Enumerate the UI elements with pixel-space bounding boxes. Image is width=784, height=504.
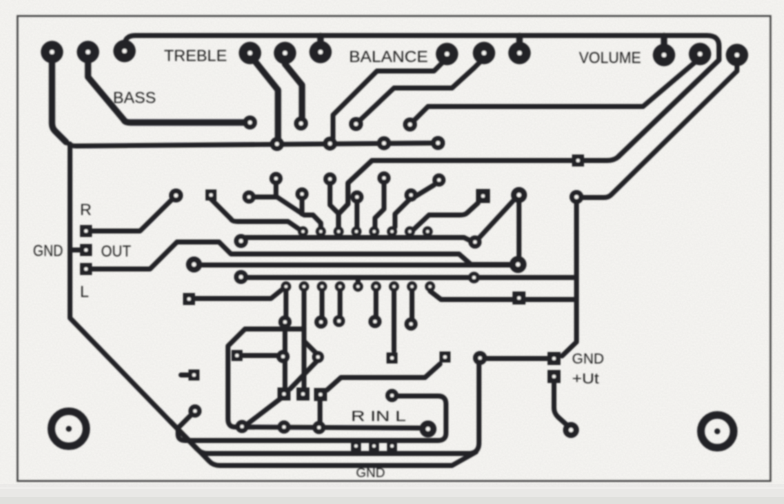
wire: pad 330 to IC row pad 3 [330, 185, 339, 227]
wire: L square jog to long analog bus H1 [92, 242, 509, 269]
junction pad bus 330 [323, 137, 337, 151]
svg-text:TREBLE: TREBLE [164, 48, 227, 65]
wire: pad 285 stem down to square 284 [283, 328, 288, 388]
pad IC row2 pin9 [425, 281, 435, 291]
pad component lower 411 [404, 188, 417, 201]
pad bottom line 319 [312, 421, 325, 434]
pad 241 H3 start [234, 270, 248, 284]
junction pad bus 438 [431, 136, 445, 150]
wire: pad 384 to IC row pad 5 [375, 184, 384, 227]
wire: long bus H2 from pad 194 to right vertical [202, 263, 510, 268]
svg-text:VOLUME: VOLUME [579, 50, 641, 67]
svg-text:GND: GND [33, 243, 63, 260]
square pad GND out [80, 244, 92, 256]
pad TREBLE pot pin3 [309, 41, 331, 63]
svg-text:GND: GND [356, 466, 385, 480]
wire: pads 249/276 chain to IC row pad 2 [255, 197, 321, 228]
square pad 303 [297, 388, 310, 401]
wire: loop branch to pad 318 and square 319 [304, 341, 317, 354]
wire: VOLUME pin3 diagonal to pad 576 and down to GND square [583, 60, 737, 198]
big pad R IN L [420, 421, 437, 438]
svg-text:OUT: OUT [101, 244, 131, 261]
wire: GND left square stub to GND vertical [72, 248, 80, 253]
pad BASS pot pin2 [77, 41, 99, 63]
square connector 374 GND [369, 441, 379, 451]
pad volume cap [403, 118, 417, 132]
pad component upper 439 [432, 173, 445, 186]
pad component lower 249 [242, 190, 255, 203]
wire: BASS pot pin2 to bass cap pad [88, 55, 244, 123]
wire: BASS pot pin1 down to horizontal bus y=145 [52, 52, 66, 142]
pad 480 GND [473, 351, 487, 365]
square 392 [387, 353, 398, 364]
wire: top GND bus from pad P3 across top, down right corner to square SQ160 and onward left, descending to IC row [125, 36, 720, 230]
square 237 [232, 350, 243, 361]
pad 283 [276, 350, 289, 363]
wire: BALANCE pot pin1 trace A to bus junction [333, 58, 447, 138]
pad 321 [314, 315, 327, 328]
wire: col 412 stem [410, 291, 415, 318]
pad IC row2 pin4 [335, 281, 345, 291]
pad IC row1 pin6 [387, 226, 397, 236]
pad 519 [511, 187, 527, 203]
pad BASS pot pin3 [113, 40, 135, 62]
wire: pad 519 diagonal to pad 475 [479, 201, 513, 238]
pad IC row1 pin3 [333, 226, 343, 236]
pad 318 mid [312, 351, 324, 363]
wire: pad 411 stem to IC row pad 6 [395, 200, 409, 227]
pad VOLUME pot pin3 [726, 44, 748, 66]
wire: BALANCE pot pin2 trace B to center pad [356, 58, 484, 124]
wire: square 482 to IC row pad 8 [412, 203, 478, 231]
wire: TREBLE pot pin3 stem to top bus [317, 36, 323, 52]
svg-text:+Ut: +Ut [572, 371, 600, 388]
wire: hook from pad 195 around to pad 392 [178, 396, 446, 441]
pad bass cap right [243, 116, 257, 130]
pad TREBLE pot pin1 [239, 42, 261, 64]
pad BALANCE pot pin3 [508, 42, 530, 64]
pad IC row1 pin2 [316, 226, 326, 236]
wire: R square to pad 176 [92, 196, 176, 232]
square 194 [189, 370, 200, 381]
pad 518 bus end [510, 256, 527, 273]
pad IC row1 pin5 [369, 226, 379, 236]
wire: bottom squares stems to hook line [318, 401, 323, 421]
square pad 211 [206, 190, 217, 201]
pad component upper 330 [323, 172, 336, 185]
pad bottom line 284 [277, 420, 290, 433]
pad 474 on H3 [468, 272, 480, 284]
wire: left GND vertical x=71 down to bottom diagonal [70, 144, 479, 454]
wire: pad 318 down to square 319 [290, 361, 317, 389]
wire: horizontal bus y=145 left to right [69, 143, 438, 146]
mounting hole left [51, 411, 86, 446]
pad IC row1 pin7 [405, 226, 415, 236]
wire: col 340 stem [338, 291, 343, 315]
svg-text:R: R [80, 202, 92, 219]
pad 195 hook start [188, 404, 201, 417]
wire: pad 357 stem to IC row pad 4 [355, 203, 360, 227]
pad IC row2 pin1 [281, 281, 291, 291]
square 445 [440, 352, 451, 363]
pad bottom line 242 [235, 420, 248, 433]
wire: outer GND branch to bottom outermost line [170, 421, 476, 466]
pad IC row2 pin7 [389, 281, 399, 291]
pad 176 R signal [169, 189, 183, 203]
wire: +Ut square down to pad 571 [554, 382, 568, 426]
wire: pad 480 to GND square [486, 356, 549, 361]
pad component upper 276 [269, 172, 282, 185]
pad treble cap [294, 117, 308, 131]
square pad 284 [278, 388, 291, 401]
wire: square 237 to pad 283 [243, 353, 277, 358]
pad 194 H2 start [186, 257, 202, 273]
svg-text:BASS: BASS [113, 90, 156, 107]
pad 411b [404, 317, 417, 330]
square pad L out [80, 263, 92, 275]
pad 576 right vertical top [570, 190, 584, 204]
junction pad bus 277 [270, 137, 284, 151]
scanner gray band bottom [0, 489, 784, 504]
wire: col 322 stem [320, 291, 325, 317]
pad 571 +Ut end [563, 422, 579, 438]
wire: pad 439 link to pad 411 [416, 185, 434, 196]
pad 475 [468, 235, 481, 248]
wire: square 445 diagonal to left horizontal y=381 [327, 364, 440, 390]
wire: VOLUME pot pin1 stem to top bus [661, 36, 667, 55]
wire: col 376 stem [374, 291, 379, 316]
square +Ut supply [548, 370, 561, 383]
pad 375 [368, 315, 381, 328]
svg-text:GND: GND [572, 351, 604, 368]
wire: long bus H3 from pad 241 to right vertical [247, 275, 575, 280]
svg-text:BALANCE: BALANCE [349, 49, 428, 66]
pad IC row1 pin4 [351, 226, 361, 236]
square pad 523 [513, 292, 526, 305]
svg-text:R IN L: R IN L [351, 408, 406, 425]
wire: vertical x=576.5 from pad197 down to GND square [562, 203, 577, 356]
pad IC row1 pin8 [422, 226, 432, 236]
pad BASS pot pin1 [41, 41, 63, 63]
square connector 356 [351, 441, 361, 451]
square connector 392 [387, 441, 397, 451]
square pad 320 [314, 388, 327, 401]
wire: BALANCE pot pin3 stem to top bus [516, 36, 522, 53]
wire: square 211 to IC row pad 1 [211, 199, 299, 229]
pad component lower 302 [295, 187, 308, 200]
square pad R out [80, 225, 92, 237]
pads [41, 40, 748, 451]
wire: square 284 diagonal to pad 242 [246, 399, 280, 425]
pad IC row2 pin2 [299, 281, 309, 291]
svg-text:L: L [80, 284, 89, 301]
junction pad bus 384 [377, 136, 391, 150]
pad IC row2 pin3 [317, 281, 327, 291]
pad 241 under-row start [234, 234, 248, 248]
pad BALANCE pot pin1 [436, 43, 458, 65]
pad IC row2 pin8 [407, 281, 417, 291]
wire: pad 276 stem [274, 184, 279, 197]
pad component upper 384 [377, 171, 390, 184]
mounting hole right [701, 415, 734, 448]
pad BALANCE pot pin2 [473, 42, 495, 64]
wire: TREBLE pot pin2 down to center pad [285, 55, 302, 117]
pad VOLUME pot pin1 [653, 44, 675, 66]
pad IC row2 pin6 [371, 281, 381, 291]
pad IC row1 pin1 [298, 226, 308, 236]
pad TREBLE pot pin2 [274, 42, 296, 64]
square GND supply [548, 352, 561, 365]
wire: pad stub 302 [300, 199, 305, 214]
wire: under-row trace from pad 241 to pad 475 [246, 238, 472, 242]
square pad 578 on y161 bus [572, 155, 584, 167]
wire: loop from row pads line up left side [228, 329, 419, 428]
square pad 482 [476, 189, 490, 203]
wire: row2 stems down col 286 [284, 291, 289, 317]
wire: col 358 stem up to H3 [356, 278, 361, 283]
wire: row2 pad 430 to square 523 and right vertical [430, 291, 575, 300]
square pad 189 input [183, 293, 195, 305]
wire: col 394 down to square 392 [392, 291, 397, 351]
wire: pad 519 down to pad 518 [517, 201, 522, 256]
wire: square 189 to IC row2 pad 1 [195, 288, 284, 299]
pad IC row2 pin5 [353, 281, 363, 291]
pad balance cap [349, 117, 363, 131]
wire: signal y=106 from pad 410 to VOLUME pin2 [410, 58, 700, 125]
pad VOLUME pot pin2 [689, 43, 711, 65]
pad 285 [278, 315, 291, 328]
pad 339 [333, 315, 345, 327]
wire: TREBLE pot pin1 down to bus junction pad [250, 55, 278, 138]
pad component lower 357 [350, 190, 363, 203]
wire: bottom middle square stem to GND line [372, 445, 376, 453]
wire: col 304 down to square 302 [302, 291, 307, 388]
wire: square 194 stub [181, 373, 188, 378]
pad 392 hook end [385, 389, 398, 402]
